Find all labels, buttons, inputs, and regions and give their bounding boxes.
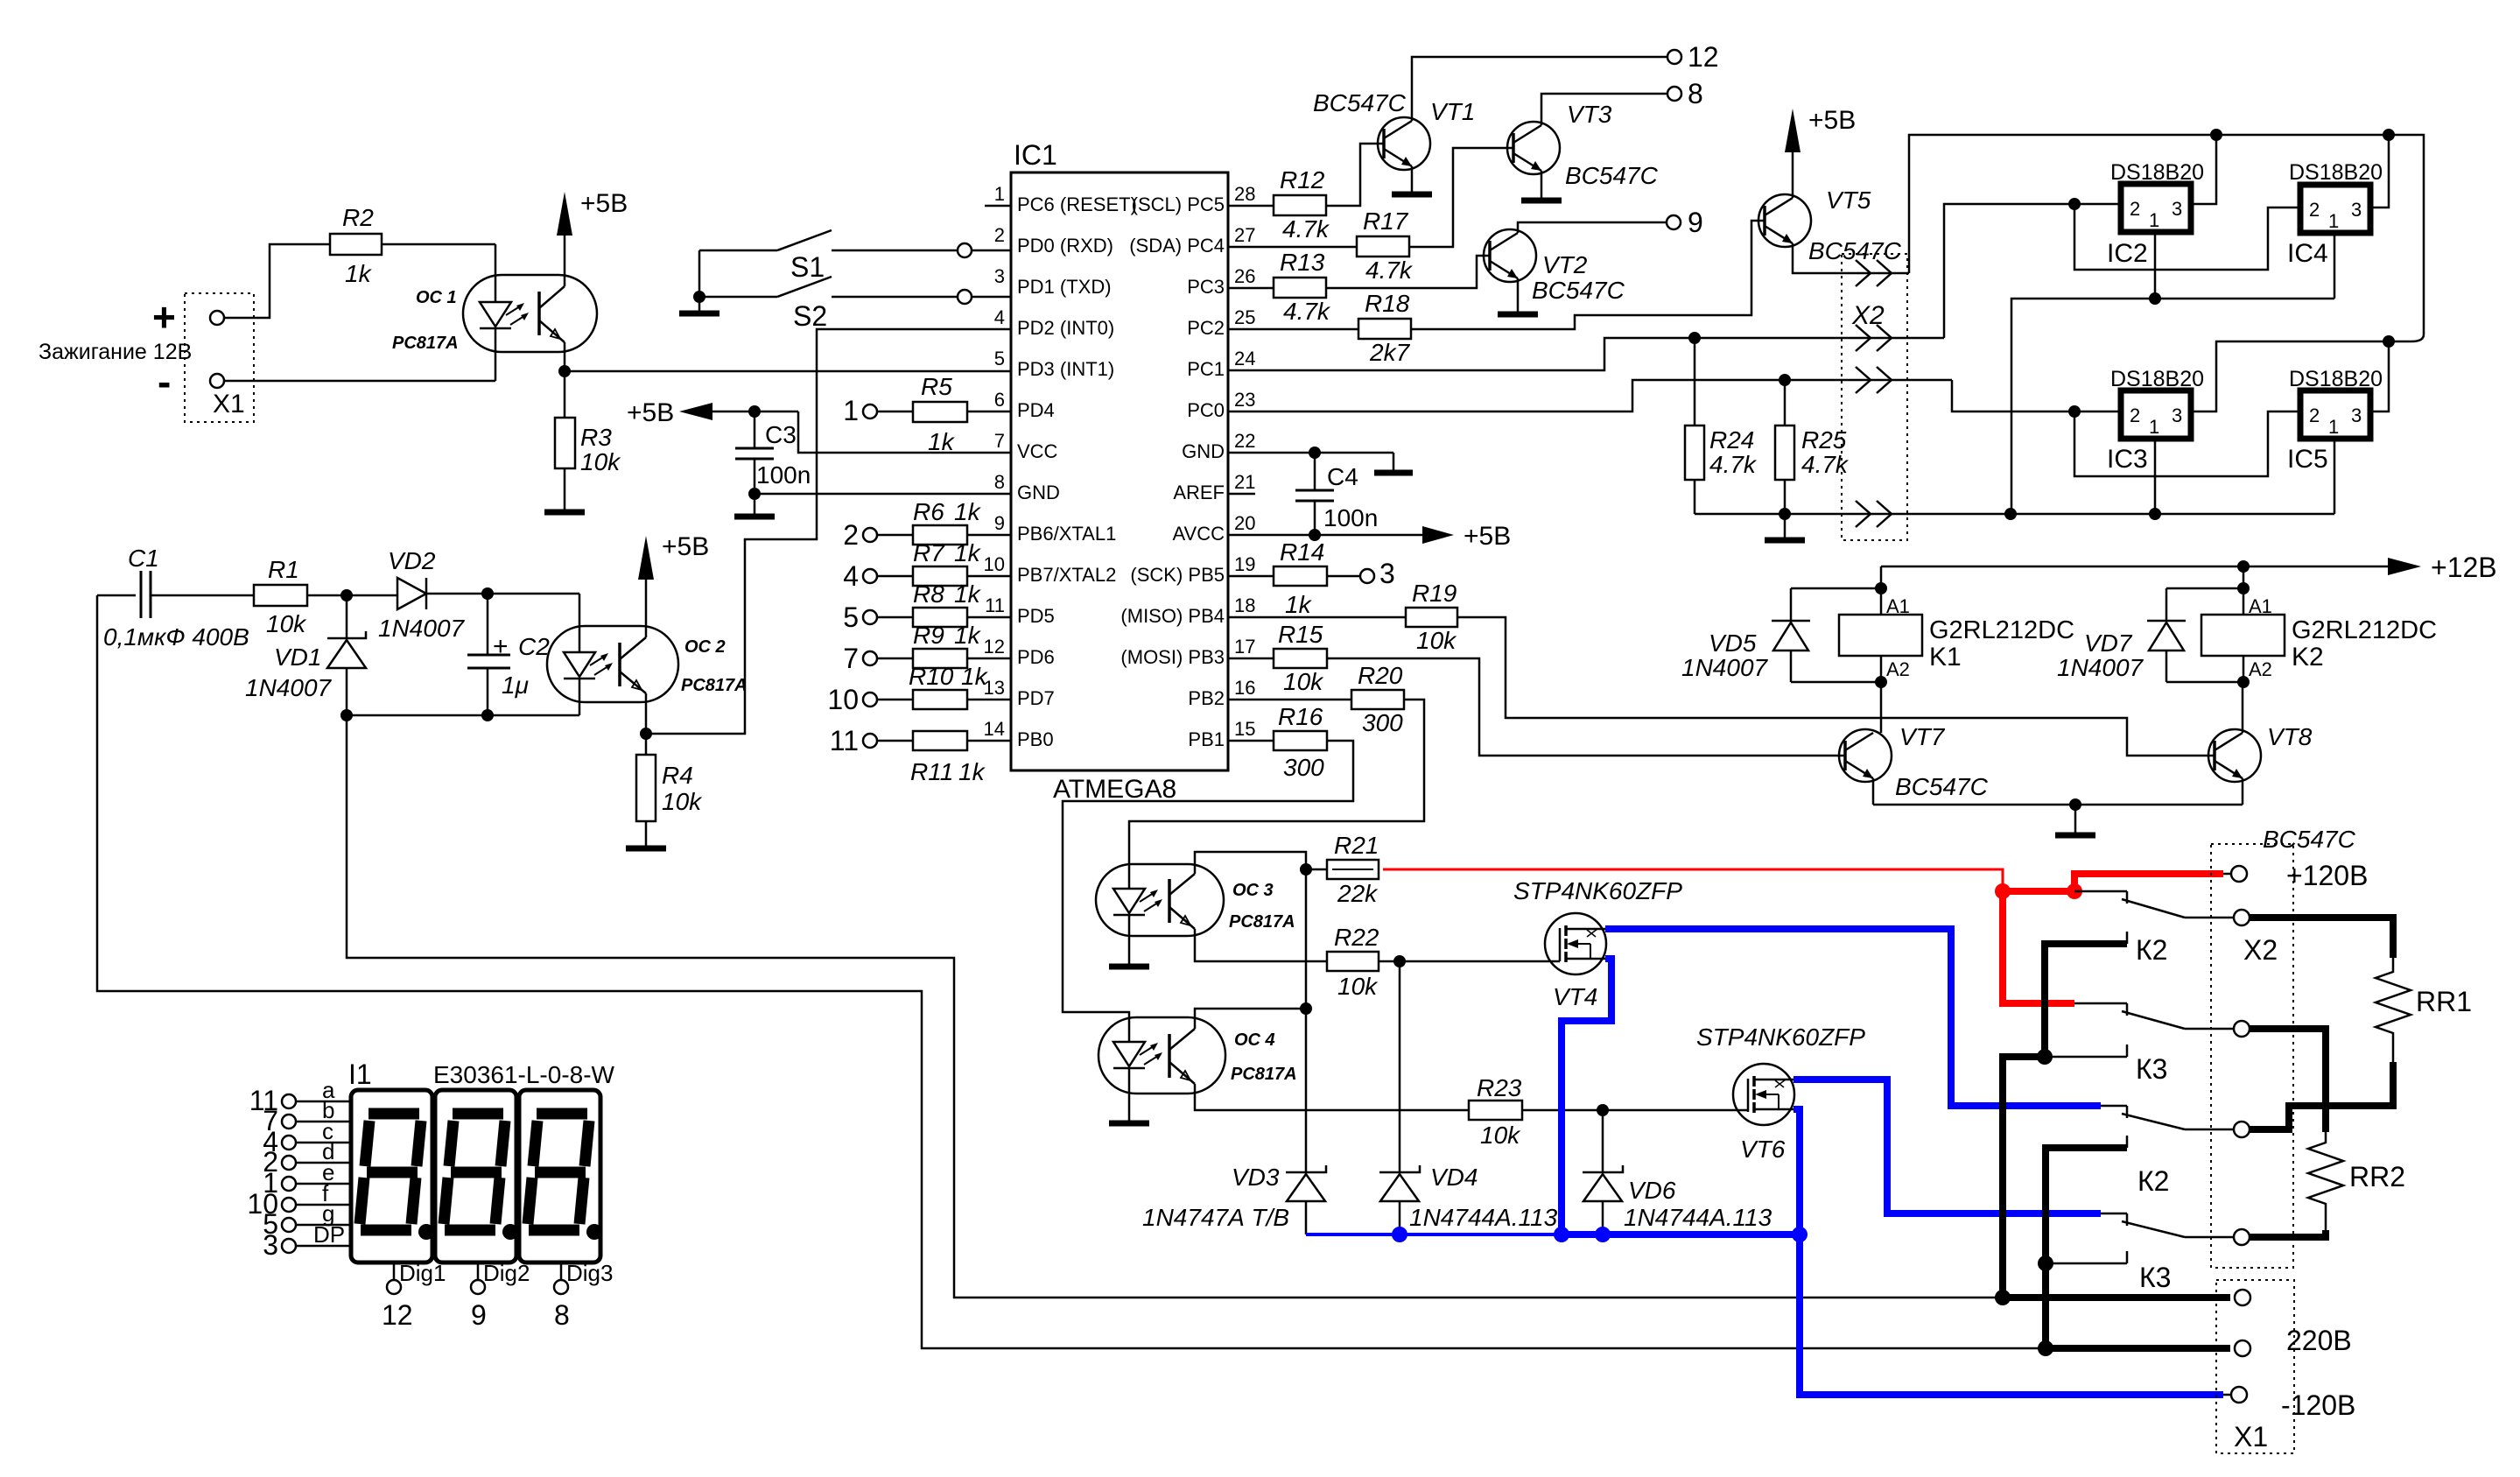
node K2 A1: [2237, 582, 2250, 594]
switch2 pole terminal: [2234, 1021, 2250, 1037]
wire R15 to VT7 base: [1327, 658, 1845, 756]
OC2 light arrows: [590, 653, 613, 675]
resistor R16: [1228, 703, 1327, 781]
MOSFET VT4: [1545, 913, 1606, 974]
svg-text:11: 11: [830, 725, 859, 756]
plus terminal: [152, 294, 224, 340]
svg-text:R4: R4: [662, 762, 693, 789]
OC3 phototransistor: [1169, 864, 1195, 936]
transistor VT1: [1378, 117, 1430, 170]
thick pole2 wire to RR2: [2250, 1029, 2326, 1132]
IC5 pin1 wire: [2334, 436, 2336, 514]
node K1 A2: [1875, 676, 1887, 688]
wire IC3 pin3 to VDD branch: [2191, 341, 2389, 411]
svg-text:VD1: VD1: [274, 644, 321, 671]
wire R16 to OC4 LED: [1063, 741, 1353, 1042]
IC4 pin1 wire: [2334, 232, 2336, 299]
svg-text:C3: C3: [765, 421, 797, 448]
svg-text:IC2: IC2: [2107, 239, 2148, 268]
svg-text:3: 3: [2351, 404, 2362, 426]
svg-text:3: 3: [2172, 198, 2182, 220]
node C4 top: [1309, 447, 1321, 459]
svg-text:A1: A1: [2249, 595, 2272, 617]
thick black chain to 220V line: [2003, 1057, 2045, 1298]
terminal 3: [1360, 558, 1395, 589]
svg-text:1N4007: 1N4007: [378, 615, 466, 642]
resistor R19: [1228, 580, 1457, 654]
display digit box Dig2: [435, 1090, 516, 1262]
svg-text:+: +: [493, 632, 509, 661]
thick pole1 wire to RR1: [2250, 918, 2393, 958]
node K1 A1: [1875, 582, 1887, 594]
OC4 collector to bus: [1195, 1009, 1306, 1017]
wire R13 to VT2 base: [1326, 256, 1490, 288]
switch 4 contacts K3: [2101, 1213, 2234, 1293]
svg-text:PD7: PD7: [1017, 687, 1055, 709]
digit 2 decimal point: [502, 1224, 518, 1240]
OC2 label: [684, 637, 726, 657]
X2 pair 1 chevrons: [1856, 260, 1892, 286]
resistor R6: [877, 498, 1011, 545]
resistor R4: [636, 755, 703, 821]
wire R19 to VT8 base: [1457, 617, 2215, 756]
svg-text:1k: 1k: [954, 498, 982, 525]
svg-text:R5: R5: [921, 373, 952, 400]
svg-text:BC547C: BC547C: [2263, 826, 2356, 853]
node R24 top: [1688, 332, 1701, 344]
svg-text:Зажигание 12В: Зажигание 12В: [39, 340, 192, 364]
svg-text:9: 9: [994, 512, 1005, 534]
svg-text:7: 7: [843, 643, 859, 674]
ground under rail: [1765, 514, 1805, 540]
svg-text:PB1: PB1: [1188, 728, 1225, 750]
svg-text:R6: R6: [913, 498, 944, 525]
resistor R23: [1469, 1074, 1603, 1149]
svg-text:R12: R12: [1280, 166, 1325, 193]
node black chain: [2037, 1049, 2053, 1065]
svg-text:1: 1: [2328, 210, 2339, 232]
node K2 A2: [2237, 676, 2250, 688]
AREF stub pin 21: [1228, 493, 1255, 496]
svg-text:DP: DP: [313, 1221, 345, 1248]
svg-text:1: 1: [2328, 416, 2339, 438]
ground under R3: [544, 510, 585, 516]
svg-text:300: 300: [1283, 754, 1324, 781]
svg-text:3: 3: [994, 265, 1005, 287]
node emitter rail: [2069, 798, 2081, 811]
svg-text:PC817A: PC817A: [392, 334, 459, 353]
svg-text:PC0: PC0: [1187, 399, 1225, 421]
blue wire VT4 source to rail: [1562, 959, 1611, 1234]
relay coil K2: [2201, 595, 2437, 680]
svg-text:ATMEGA8: ATMEGA8: [1053, 775, 1176, 804]
wire R1 to node: [307, 594, 397, 597]
OC1 emitter to node: [564, 352, 566, 371]
svg-text:R25: R25: [1801, 426, 1847, 454]
+5V arrow above VT5: [1785, 106, 1856, 198]
svg-text:10k: 10k: [1337, 973, 1379, 1000]
svg-text:R18: R18: [1365, 290, 1410, 317]
pin names right: [1120, 193, 1225, 750]
svg-text:PC817A: PC817A: [1231, 1065, 1297, 1084]
svg-text:23: 23: [1234, 389, 1255, 411]
wire R12 to VT1 base: [1326, 144, 1384, 206]
svg-text:DS18B20: DS18B20: [2110, 367, 2204, 391]
display digit box Dig3: [519, 1090, 600, 1262]
wire 220V pole B from VD1 rail: [347, 715, 2003, 1298]
+120V terminal: [2223, 860, 2368, 891]
svg-text:10k: 10k: [662, 788, 703, 815]
display pin f: [247, 1180, 351, 1220]
wire to VCC pin 7: [798, 411, 1011, 453]
svg-text:C4: C4: [1327, 463, 1358, 490]
OC3 LED: [1113, 889, 1145, 967]
svg-text:VT3: VT3: [1567, 101, 1612, 128]
red node 1: [1995, 883, 2011, 899]
resistor R24: [1685, 338, 1758, 514]
svg-text:X1: X1: [213, 390, 245, 418]
svg-text:+5В: +5В: [1808, 106, 1856, 135]
node C3 bottom: [748, 488, 761, 500]
VT2 collector to terminal 9: [1518, 222, 1667, 233]
node switch4 lower contact: [2038, 1255, 2053, 1271]
diode VD7: [2057, 588, 2186, 682]
node R25 top: [1779, 374, 1791, 386]
svg-text:IC1: IC1: [1014, 139, 1057, 171]
svg-text:VT2: VT2: [1542, 251, 1588, 278]
optocoupler OC3 body: [1096, 864, 1224, 936]
transistor VT5: [1758, 194, 1811, 247]
node C2 bottom: [481, 709, 494, 721]
node OC4 collector: [1300, 1002, 1312, 1015]
thick black switch1 lower contact chain: [2045, 944, 2127, 1057]
svg-text:1N4007: 1N4007: [245, 674, 333, 701]
svg-text:28: 28: [1234, 183, 1255, 205]
display pin e: [263, 1159, 351, 1199]
node IC2 pin2: [2068, 198, 2081, 210]
blue node VD4: [1392, 1227, 1407, 1242]
svg-text:1k: 1k: [954, 580, 982, 608]
display pin d: [263, 1138, 351, 1178]
OC1 LED: [480, 244, 511, 381]
VT1 labels: [1313, 89, 1475, 125]
terminal 9: [1667, 207, 1703, 238]
node gnd rail R25: [1779, 508, 1791, 520]
OC1 phototransistor: [539, 275, 565, 352]
wire X1- to OC1 LED cathode: [224, 380, 495, 383]
ground OC3 LED: [1109, 964, 1149, 970]
blue wire VT6 source: [1793, 1109, 1800, 1234]
VT3 emitter to ground: [1521, 171, 1562, 200]
OC2 phototransistor: [620, 626, 646, 702]
ground for pin 22: [1374, 453, 1413, 473]
wire PD3 (INT1) long: [565, 370, 1011, 373]
ground for S1/S2: [679, 311, 719, 317]
svg-text:PC817A: PC817A: [681, 676, 748, 695]
svg-text:2: 2: [994, 224, 1005, 246]
node 220V line2: [2038, 1340, 2053, 1356]
svg-text:R1: R1: [268, 556, 299, 583]
svg-text:1k: 1k: [928, 428, 956, 455]
optocoupler OC4 body: [1099, 1017, 1225, 1094]
OC1 light arrows: [506, 303, 529, 325]
svg-text:1: 1: [843, 395, 859, 426]
connector X2 bottom dotted box: [2211, 844, 2293, 1268]
terminal 7: [843, 643, 877, 674]
wire R22 to VT4 gate: [1400, 960, 1560, 963]
red wire R21 to switch node: [1383, 869, 2003, 885]
svg-text:R24: R24: [1709, 426, 1754, 454]
svg-text:9: 9: [1688, 207, 1703, 238]
resistor R25: [1775, 380, 1850, 514]
connector X2 top dotted box: [1842, 254, 1907, 540]
svg-text:VT8: VT8: [2267, 723, 2313, 750]
switch3 pole terminal: [2234, 1122, 2250, 1137]
svg-text:R11: R11: [910, 758, 953, 785]
wire VD4 column: [1399, 961, 1401, 1172]
svg-text:1: 1: [994, 183, 1005, 205]
resistor R12: [1228, 166, 1330, 243]
svg-text:R17: R17: [1363, 207, 1409, 235]
node C4 bottom on AVCC wire: [1309, 529, 1321, 541]
X1 terminal 220V a: [2235, 1290, 2250, 1305]
terminal 12: [1667, 41, 1719, 73]
svg-text:BC547C: BC547C: [1313, 89, 1407, 116]
sensor pin1 rail upper: [2011, 299, 2334, 514]
wire K1 A1: [1880, 566, 1883, 615]
svg-text:VD2: VD2: [388, 547, 436, 574]
svg-text:4.7k: 4.7k: [1801, 451, 1850, 478]
svg-text:2: 2: [2309, 404, 2320, 426]
svg-text:VT1: VT1: [1430, 98, 1475, 125]
OC2 emitter to node: [645, 702, 648, 734]
wire OC2 emitter to PD2 (INT0): [646, 329, 1011, 734]
blue rail zeners: [1306, 1233, 1800, 1236]
svg-text:100n: 100n: [756, 461, 811, 489]
svg-text:STP4NK60ZFP: STP4NK60ZFP: [1696, 1023, 1865, 1051]
svg-text:8: 8: [1688, 78, 1703, 109]
svg-text:VCC: VCC: [1017, 440, 1058, 462]
wire A2 to VT7 collector: [1880, 656, 1883, 733]
svg-text:300: 300: [1362, 709, 1403, 736]
VT6 labels: [1696, 1023, 1865, 1163]
X2 pair 2 chevrons: [1856, 325, 1892, 351]
svg-text:BC547C: BC547C: [1565, 162, 1659, 189]
svg-text:STP4NK60ZFP: STP4NK60ZFP: [1513, 877, 1682, 904]
svg-text:R2: R2: [342, 204, 374, 231]
svg-text:K1: K1: [1929, 643, 1962, 672]
VT3 collector to terminal 8: [1541, 94, 1667, 125]
svg-text:16: 16: [1234, 677, 1255, 699]
svg-text:+5В: +5В: [580, 189, 628, 218]
node VD2/C2: [481, 587, 494, 600]
transistor VT8: [2208, 729, 2261, 782]
svg-text:PC3: PC3: [1187, 276, 1225, 298]
digit 3 decimal point: [586, 1224, 602, 1240]
zener VD6: [1583, 1165, 1772, 1234]
wire R4 to ground: [645, 821, 648, 848]
svg-text:PB0: PB0: [1017, 728, 1054, 750]
transistor VT7: [1839, 729, 1892, 782]
wire VT7 emitter: [1872, 778, 1875, 805]
svg-text:OC 3: OC 3: [1232, 881, 1274, 900]
svg-text:PD6: PD6: [1017, 646, 1055, 668]
svg-text:BC547C: BC547C: [1532, 277, 1625, 304]
svg-text:VD4: VD4: [1430, 1164, 1478, 1191]
svg-text:К3: К3: [2139, 1262, 2171, 1293]
X2 pair 4 chevrons: [1856, 501, 1892, 527]
digit 1 segments: [360, 1114, 421, 1230]
svg-text:22k: 22k: [1337, 880, 1379, 907]
digit 1 decimal point: [418, 1224, 434, 1240]
svg-text:S1: S1: [790, 251, 825, 283]
thick 220V line1 to X1: [2003, 1294, 2230, 1301]
OC3 part PC817A: [1229, 912, 1295, 932]
wire PC0 to X2 pair 3: [1228, 380, 1952, 411]
svg-text:1k: 1k: [961, 663, 989, 690]
svg-text:2: 2: [843, 519, 859, 551]
resistor R7: [877, 539, 1011, 586]
display pin g: [263, 1200, 351, 1240]
node R23 right VD6: [1597, 1104, 1609, 1116]
svg-text:(SCK) PB5: (SCK) PB5: [1130, 564, 1225, 586]
VT1 collector to terminal 12: [1412, 57, 1667, 121]
svg-text:PD4: PD4: [1017, 399, 1055, 421]
svg-text:DS18B20: DS18B20: [2289, 367, 2383, 391]
blue node VD6: [1595, 1227, 1611, 1242]
svg-text:-120В: -120В: [2281, 1389, 2355, 1421]
IC IC5 DS18B20: [2287, 367, 2383, 474]
display Dig3 pin: [554, 1260, 613, 1331]
wire pair3 to IC3 pin2: [1952, 380, 2121, 411]
node IC3 pin2: [2068, 405, 2081, 418]
wire VD5 top to A1: [1791, 587, 1881, 590]
svg-text:VD6: VD6: [1628, 1177, 1676, 1204]
connector X1 bottom dotted box: [2216, 1280, 2294, 1453]
wire R17 to VT3 base: [1409, 148, 1513, 247]
svg-text:24: 24: [1234, 348, 1255, 369]
svg-text:1k: 1k: [958, 758, 986, 785]
resistor R15: [1228, 621, 1327, 695]
svg-text:K2: K2: [2292, 643, 2324, 672]
svg-text:+: +: [152, 294, 176, 340]
svg-text:IC4: IC4: [2287, 239, 2328, 268]
svg-text:G2RL212DC: G2RL212DC: [1929, 616, 2074, 644]
svg-text:10k: 10k: [580, 448, 621, 475]
OC4 part PC817A: [1231, 1065, 1297, 1084]
OC2 part PC817A: [681, 676, 748, 695]
OC3 emitter to R22: [1195, 936, 1327, 961]
svg-text:RR1: RR1: [2416, 986, 2472, 1017]
capacitor C4: [1295, 453, 1378, 535]
IC IC2 DS18B20: [2107, 160, 2204, 268]
thick RR2 bottom to pole4: [2250, 1230, 2326, 1237]
svg-text:VD3: VD3: [1232, 1164, 1280, 1191]
IC3 pin1 wire: [2154, 436, 2157, 514]
svg-text:Dig3: Dig3: [566, 1260, 613, 1286]
resistor R5: [877, 373, 1011, 455]
svg-text:25: 25: [1234, 306, 1255, 328]
ground under R4: [626, 846, 666, 852]
svg-text:BC547C: BC547C: [1895, 773, 1989, 800]
svg-text:27: 27: [1234, 224, 1255, 246]
diode VD2: [378, 547, 488, 642]
resistor R10: [877, 663, 1011, 709]
OC3 collector to R21 node: [1195, 852, 1306, 869]
transistor VT2: [1484, 229, 1536, 282]
svg-text:(MOSI) PB3: (MOSI) PB3: [1120, 646, 1225, 668]
svg-text:5: 5: [994, 348, 1005, 369]
thick black switch3 lower chain: [2046, 1148, 2127, 1348]
capacitor C2: [467, 594, 550, 715]
svg-text:19: 19: [1234, 553, 1255, 575]
resistor R14: [1228, 538, 1359, 618]
svg-text:4.7k: 4.7k: [1365, 257, 1414, 284]
svg-text:20: 20: [1234, 512, 1255, 534]
svg-text:2: 2: [2130, 198, 2140, 220]
wire X1+ to R2: [224, 244, 330, 318]
display Dig1 pin: [382, 1260, 446, 1331]
svg-text:AREF: AREF: [1173, 482, 1225, 503]
svg-text:1N4744А.113: 1N4744А.113: [1409, 1204, 1558, 1231]
wire VD7 top to K2 A1: [2166, 587, 2243, 590]
emitter rail VT7 VT8: [1873, 804, 2243, 806]
resistor RR1 zigzag: [2376, 958, 2472, 1062]
svg-text:1μ: 1μ: [502, 672, 529, 699]
capacitor C1: [97, 545, 254, 618]
svg-text:1: 1: [2149, 209, 2159, 231]
svg-text:2: 2: [2309, 199, 2320, 221]
svg-text:12: 12: [1688, 41, 1719, 73]
label Zazhiganie 12V: [39, 340, 192, 364]
wire K2 A2 to VT8 collector: [2243, 656, 2243, 733]
svg-text:GND: GND: [1017, 482, 1060, 503]
resistor R1: [254, 556, 307, 637]
wire PC1 to X2 pair 2: [1228, 338, 1944, 370]
svg-text:(MISO) PB4: (MISO) PB4: [1120, 605, 1225, 627]
wire VD5 bottom to A2: [1791, 681, 1881, 684]
node OC1 emitter / PD3: [558, 365, 571, 377]
wire 220V pole A from C1: [97, 595, 2046, 1348]
svg-text:7: 7: [994, 430, 1005, 452]
node R22 right: [1393, 955, 1406, 967]
wire VD7 bottom to K2 A2: [2166, 681, 2243, 684]
svg-text:A2: A2: [1886, 658, 1910, 680]
VT5 labels: [1808, 186, 1902, 264]
OC1 label: [416, 288, 457, 307]
svg-text:OC 1: OC 1: [416, 288, 457, 307]
wire node to switch2 lower contact: [2045, 1044, 2127, 1057]
wire VT8 emitter: [2242, 778, 2244, 805]
thick RR1 bottom to pole3: [2250, 1062, 2393, 1129]
svg-text:10: 10: [984, 553, 1005, 575]
OC1 part PC817A: [392, 334, 459, 353]
switch 3 contacts K2: [2101, 1106, 2234, 1197]
label 220V: [2286, 1325, 2352, 1356]
svg-text:3: 3: [263, 1229, 278, 1261]
svg-text:4.7k: 4.7k: [1283, 298, 1331, 325]
svg-text:21: 21: [1234, 471, 1255, 493]
display I1 label: [348, 1059, 372, 1090]
resistor R20: [1228, 662, 1404, 736]
switch 2 contacts K3: [2074, 1003, 2234, 1085]
svg-text:C1: C1: [128, 545, 159, 572]
svg-text:Dig1: Dig1: [399, 1260, 446, 1286]
svg-text:PD0 (RXD): PD0 (RXD): [1017, 235, 1113, 257]
connector X1 (ignition input) dotted box: [185, 293, 254, 422]
svg-text:1N4744А.113: 1N4744А.113: [1624, 1204, 1772, 1231]
wire VDD branch to IC5 pin3: [2370, 341, 2389, 411]
